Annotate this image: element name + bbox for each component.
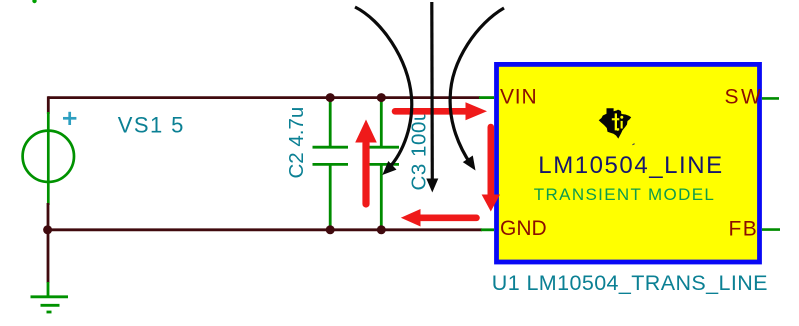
plus sign: [63, 112, 76, 125]
junction node bottom C2: [326, 225, 335, 234]
wire top rail: [48, 96, 480, 99]
wire left drop from corner: [47, 96, 50, 114]
current arrow left (from GND): [401, 209, 477, 227]
pin stub SW: [762, 97, 779, 100]
pin stub FB: [762, 228, 780, 231]
wire bottom rail: [47, 228, 483, 231]
capacitor C3: [364, 99, 400, 229]
field arrow left curve: [355, 7, 412, 175]
wire below source: [47, 203, 50, 230]
ground: [31, 282, 69, 312]
svg-text:SW: SW: [725, 85, 764, 108]
field arrow right curve: [450, 8, 504, 171]
svg-text:TRANSIENT MODEL: TRANSIENT MODEL: [534, 185, 715, 204]
junction node top C3: [377, 93, 386, 102]
svg-text:FB: FB: [728, 218, 758, 241]
current arrow right (into VIN): [395, 102, 487, 120]
svg-text:VS1 5: VS1 5: [118, 112, 185, 137]
field arrow middle: [426, 2, 438, 193]
current arrow down (along VIN-GND): [482, 127, 500, 212]
current arrow up (between C2 and C3): [355, 120, 377, 205]
op-amp U1 IC body: [497, 64, 760, 262]
TI logo: [599, 108, 635, 145]
capacitor C2: [313, 99, 349, 229]
svg-text:VIN: VIN: [500, 85, 537, 108]
junction node bottom C3: [377, 225, 386, 234]
wire ground drop: [47, 230, 50, 283]
svg-text:U1 LM10504_TRANS_LINE: U1 LM10504_TRANS_LINE: [492, 271, 768, 295]
junction node ground: [43, 225, 52, 234]
svg-text:GND: GND: [500, 217, 547, 240]
svg-text:C2 4.7u: C2 4.7u: [285, 107, 308, 179]
stray green mark: [32, 0, 36, 3]
wire VIN green stub: [479, 96, 494, 99]
svg-text:LM10504_LINE: LM10504_LINE: [538, 152, 723, 179]
voltage source VS1: [23, 112, 74, 205]
junction node top C2: [326, 93, 335, 102]
wire GND green stub: [481, 228, 494, 231]
